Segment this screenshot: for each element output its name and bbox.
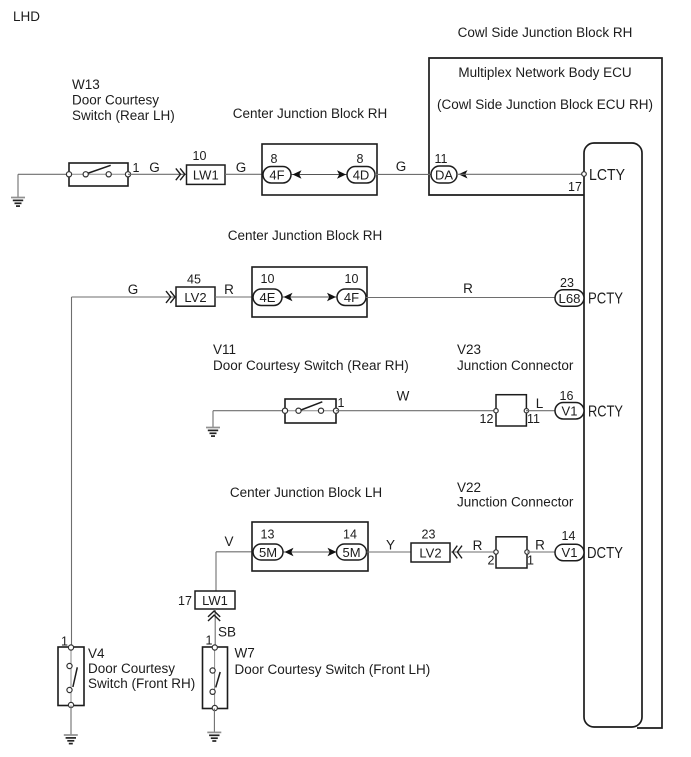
svg-text:L68: L68 [559, 291, 581, 306]
wire row2 to LV2 [72, 296, 177, 298]
junction connector V23 box [496, 395, 526, 426]
ground G-W7 [207, 731, 221, 733]
wire LW1 to junction block row1 [225, 173, 263, 175]
svg-text:V4: V4 [88, 646, 105, 661]
arrow into DA [459, 170, 468, 178]
Center Junction Block RH row2 box [252, 267, 367, 317]
wire V4 to ground [70, 706, 72, 735]
svg-text:LHD: LHD [13, 9, 40, 24]
terminal oval DA [431, 166, 457, 183]
terminal oval V1 row4 [555, 544, 584, 561]
terminal oval 4E row2 [253, 289, 282, 306]
svg-text:RCTY: RCTY [588, 403, 623, 420]
svg-text:LCTY: LCTY [589, 167, 625, 184]
wire junction block to ECU row1 [375, 173, 431, 175]
wire V23 to RCTY [526, 410, 556, 412]
svg-text:5M: 5M [342, 545, 360, 560]
svg-text:17: 17 [178, 594, 192, 608]
arrow into 4D [337, 170, 346, 178]
terminal oval 4D row1 [347, 167, 375, 184]
connector LV2 row4 box [411, 543, 450, 562]
svg-text:Door Courtesy Switch (Front LH: Door Courtesy Switch (Front LH) [235, 662, 431, 677]
svg-text:Multiplex Network Body ECU: Multiplex Network Body ECU [458, 65, 631, 80]
svg-text:LW1: LW1 [202, 593, 228, 608]
arrow into 4F [293, 170, 302, 178]
svg-text:W: W [397, 389, 410, 404]
svg-text:Y: Y [386, 538, 395, 553]
svg-text:DCTY: DCTY [587, 545, 623, 562]
wire through V4 [70, 647, 72, 706]
svg-text:R: R [224, 282, 234, 297]
svg-text:G: G [396, 159, 407, 174]
svg-text:R: R [473, 538, 483, 553]
switch V4 box [58, 647, 84, 706]
svg-text:V23: V23 [457, 342, 481, 357]
connector LV2 row2 box [176, 287, 215, 306]
svg-text:SB: SB [218, 625, 236, 640]
svg-text:4E: 4E [260, 290, 276, 305]
wire LW1 to W7 [214, 609, 216, 647]
ground G1 stem [17, 174, 19, 197]
arrow into 4F row2 [327, 293, 336, 301]
svg-text:10: 10 [193, 149, 207, 163]
svg-text:DA: DA [435, 168, 453, 183]
wire junction block LH to LV2 [367, 551, 412, 553]
svg-text:(Cowl Side Junction Block ECU: (Cowl Side Junction Block ECU RH) [437, 97, 653, 112]
svg-text:Switch (Front RH): Switch (Front RH) [88, 676, 195, 691]
svg-text:LV2: LV2 [184, 290, 206, 305]
svg-text:Switch (Rear LH): Switch (Rear LH) [72, 108, 175, 123]
wire through W7 [214, 647, 216, 709]
svg-text:4F: 4F [269, 168, 284, 183]
svg-text:PCTY: PCTY [588, 290, 623, 307]
wire V22 to DCTY [527, 551, 556, 553]
chevron splice up row4 [208, 611, 220, 621]
svg-text:Door Courtesy: Door Courtesy [72, 93, 159, 108]
svg-text:Junction Connector: Junction Connector [457, 358, 574, 373]
svg-text:10: 10 [261, 272, 275, 286]
node V22 pin 1 [525, 550, 529, 554]
terminal oval L68 [555, 290, 584, 307]
terminal oval V1 row3 [555, 403, 584, 420]
svg-text:Door Courtesy Switch (Rear RH): Door Courtesy Switch (Rear RH) [213, 358, 409, 373]
wire V11 to V23 [336, 410, 496, 412]
svg-text:4D: 4D [353, 168, 370, 183]
ground G3 [206, 427, 220, 429]
svg-text:16: 16 [560, 389, 574, 403]
svg-text:45: 45 [187, 273, 201, 287]
ECU U1 box Multiplex Network Body ECU [429, 58, 662, 728]
node V23 pin 11 [524, 409, 528, 413]
junction connector V22 box [496, 537, 527, 568]
chevron splice right row1 [176, 168, 185, 180]
svg-text:Cowl Side Junction Block RH: Cowl Side Junction Block RH [458, 25, 633, 40]
terminal oval 5M right [337, 544, 367, 560]
wire junction block row2 to PCTY [366, 297, 556, 299]
terminal oval 4F row1 [263, 167, 291, 184]
ground G-V4 [64, 734, 78, 736]
wire through V11 [285, 410, 336, 412]
wire left vertical from row2 to V4 [71, 297, 73, 647]
svg-text:23: 23 [560, 276, 574, 290]
switch W7 contact pins [212, 645, 217, 650]
Center Junction Block RH row1 box [262, 144, 377, 195]
svg-text:R: R [463, 281, 473, 296]
arrow into 4E [284, 293, 293, 301]
wire W7 to ground [213, 709, 215, 733]
svg-text:G: G [149, 160, 160, 175]
svg-text:W7: W7 [235, 646, 255, 661]
terminal oval 4F row2 [337, 289, 366, 306]
switch V4 blade [73, 667, 77, 687]
svg-text:V1: V1 [562, 545, 578, 560]
switch V11 contact pins [282, 408, 287, 413]
svg-text:W13: W13 [72, 77, 100, 92]
node LCTY pin circle [582, 172, 587, 177]
node V23 pin 12 [494, 409, 498, 413]
svg-text:8: 8 [271, 152, 278, 166]
wire inside junction block row2 [282, 296, 337, 298]
switch V11 box [285, 399, 336, 423]
terminal oval 5M left [253, 544, 283, 560]
svg-text:5M: 5M [259, 545, 277, 560]
node V22 pin 2 [494, 550, 498, 554]
svg-text:10: 10 [345, 272, 359, 286]
wire LV2 to junction block row2 [215, 296, 253, 298]
svg-text:Center Junction Block LH: Center Junction Block LH [230, 485, 382, 500]
svg-text:17: 17 [568, 180, 582, 194]
svg-text:14: 14 [343, 528, 357, 542]
switch V4 contact pins [68, 645, 73, 650]
svg-text:11: 11 [435, 152, 448, 166]
svg-text:V1: V1 [562, 404, 578, 419]
Center Junction Block LH box [252, 522, 368, 571]
switch V11 blade [301, 402, 322, 410]
svg-text:Junction Connector: Junction Connector [457, 495, 574, 510]
svg-text:V: V [224, 534, 233, 549]
svg-text:Center Junction Block RH: Center Junction Block RH [228, 228, 383, 243]
chevron splice left row4 [453, 546, 462, 559]
wire inside junction block LH [283, 551, 337, 553]
svg-text:G: G [128, 282, 139, 297]
svg-text:LW1: LW1 [193, 167, 219, 182]
arrow into 5M right [328, 548, 337, 556]
svg-text:V11: V11 [213, 342, 236, 357]
svg-text:14: 14 [562, 529, 576, 543]
svg-text:R: R [535, 538, 545, 553]
svg-text:11: 11 [527, 412, 540, 426]
svg-text:L: L [536, 396, 544, 411]
svg-text:1: 1 [133, 161, 140, 175]
wire inside junction block row1 [291, 174, 347, 176]
svg-text:1: 1 [338, 396, 345, 410]
wire ground to switch W13 [18, 173, 69, 175]
svg-text:23: 23 [422, 528, 436, 542]
connector block rounded rect [584, 143, 642, 727]
wire ground to switch V11 [213, 410, 285, 412]
svg-text:13: 13 [261, 528, 275, 542]
arrow into 5M left [285, 548, 294, 556]
chevron splice right row2 [166, 291, 175, 303]
wire corner to junction block LH [216, 551, 253, 553]
switch W13 blade [87, 165, 111, 173]
ground G3 stem [212, 411, 214, 428]
svg-text:V22: V22 [457, 480, 481, 495]
svg-text:2: 2 [488, 554, 495, 568]
ground G1 [11, 197, 25, 199]
wire vertical to LW1 row4 [215, 552, 217, 591]
wire DA to LCTY pin [457, 173, 582, 175]
svg-text:1: 1 [527, 554, 534, 568]
switch W13 contact pins [66, 172, 71, 177]
wire LV2 to V22 [450, 551, 496, 553]
svg-text:12: 12 [480, 412, 494, 426]
wire W13 to LW1 [128, 173, 187, 175]
svg-text:Center Junction Block RH: Center Junction Block RH [233, 106, 388, 121]
svg-text:LV2: LV2 [419, 546, 441, 561]
switch W7 box [203, 647, 228, 709]
svg-text:G: G [236, 160, 247, 175]
switch W13 box [69, 163, 128, 186]
switch W7 blade [216, 672, 221, 687]
connector LW1 row1 box [187, 165, 226, 184]
svg-text:1: 1 [206, 634, 213, 648]
wire through W13 [69, 173, 128, 175]
svg-text:4F: 4F [344, 290, 359, 305]
svg-text:Door Courtesy: Door Courtesy [88, 661, 175, 676]
svg-text:8: 8 [357, 152, 364, 166]
connector LW1 row4 box [195, 591, 235, 609]
